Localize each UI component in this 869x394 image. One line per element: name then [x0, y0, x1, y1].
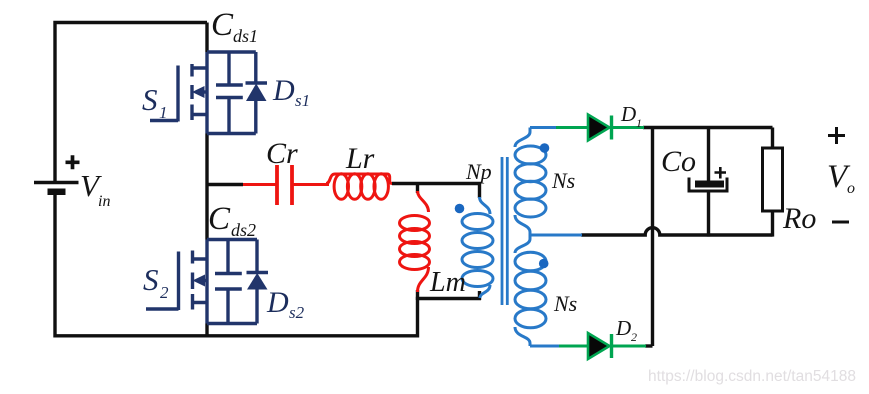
- svg-text:Ro: Ro: [782, 202, 816, 235]
- svg-text:in: in: [98, 193, 110, 210]
- svg-text:o: o: [847, 180, 855, 197]
- svg-text:D: D: [615, 316, 631, 340]
- svg-text:https://blog.csdn.net/tan54188: https://blog.csdn.net/tan54188: [648, 368, 856, 385]
- svg-text:S: S: [142, 82, 158, 117]
- svg-text:Ns: Ns: [551, 168, 575, 193]
- svg-text:D: D: [266, 286, 289, 319]
- svg-text:Np: Np: [465, 159, 492, 184]
- svg-text:Ns: Ns: [553, 291, 577, 316]
- svg-text:Co: Co: [661, 145, 696, 178]
- svg-text:Lr: Lr: [345, 142, 375, 175]
- svg-text:2: 2: [631, 330, 637, 344]
- svg-text:s1: s1: [295, 91, 310, 110]
- svg-text:s2: s2: [289, 303, 305, 322]
- svg-text:S: S: [143, 262, 159, 297]
- svg-text:Lm: Lm: [429, 267, 466, 298]
- svg-text:ds2: ds2: [231, 220, 256, 240]
- svg-text:D: D: [272, 74, 295, 107]
- svg-text:ds1: ds1: [233, 26, 258, 46]
- svg-text:2: 2: [160, 283, 169, 302]
- svg-text:1: 1: [159, 103, 168, 122]
- svg-text:C: C: [211, 7, 234, 43]
- svg-text:D: D: [620, 102, 636, 126]
- svg-text:Cr: Cr: [266, 137, 298, 170]
- svg-text:C: C: [208, 201, 231, 237]
- svg-text:1: 1: [636, 116, 642, 130]
